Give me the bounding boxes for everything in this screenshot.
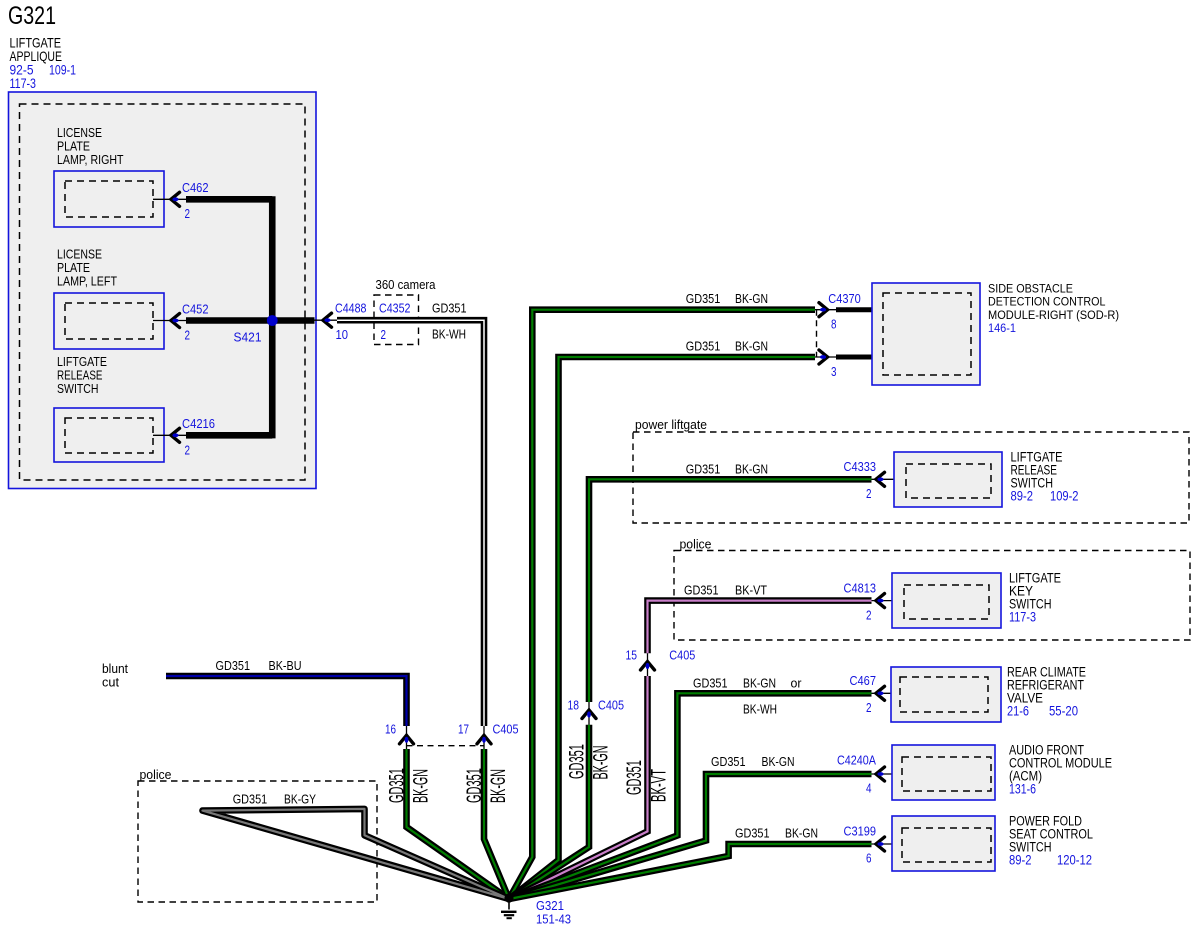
wire GD351 BK-GN from SOD-R pin 3 to ground	[509, 357, 815, 899]
dashed link of connector C405 between pins 16 and 17	[407, 745, 485, 747]
license plate lamp right component box	[54, 171, 164, 227]
police option dashed box upper	[674, 551, 1190, 641]
svg-text:131-6: 131-6	[1009, 782, 1036, 797]
svg-text:BK-GN: BK-GN	[735, 340, 768, 354]
svg-text:BK-GN: BK-GN	[590, 746, 613, 780]
wire GD351 BK-VT from C405 pin 15 to ground	[509, 676, 648, 899]
wire GD351 BK-BU from blunt cut to C405 pin 16	[166, 676, 407, 726]
liftgate release switch component box	[894, 452, 1002, 507]
svg-text:LICENSE: LICENSE	[57, 248, 102, 262]
svg-text:GD351: GD351	[566, 744, 589, 779]
power fold seat switch inner dashed box	[902, 828, 991, 862]
liftgate key switch component box	[892, 573, 1001, 628]
svg-text:109-2: 109-2	[1050, 489, 1079, 504]
rear climate valve inner dashed box	[900, 677, 988, 712]
audio front control module component box	[892, 745, 995, 800]
pin 8 lead into SOD-R	[815, 309, 883, 311]
svg-text:151-43: 151-43	[536, 912, 571, 927]
svg-text:GD351: GD351	[686, 292, 721, 306]
svg-text:C405: C405	[493, 722, 519, 737]
svg-text:C452: C452	[182, 302, 209, 317]
wire junction blob at ground point	[504, 893, 513, 902]
liftgate key switch inner dashed box	[904, 585, 989, 619]
svg-text:2: 2	[185, 444, 191, 458]
label LICENSE PLATE LAMP, LEFT	[57, 248, 117, 289]
svg-text:MODULE-RIGHT (SOD-R): MODULE-RIGHT (SOD-R)	[988, 308, 1119, 322]
svg-text:GD351: GD351	[463, 768, 486, 803]
wire C4216 to junction	[186, 432, 272, 439]
svg-text:LAMP, RIGHT: LAMP, RIGHT	[57, 153, 124, 167]
svg-text:BK-BU: BK-BU	[269, 659, 302, 673]
SOD-R module box	[872, 283, 980, 385]
svg-text:15: 15	[626, 649, 638, 663]
svg-text:GD351: GD351	[623, 760, 646, 795]
liftgate release switch inner dashed box	[65, 418, 153, 453]
connector arrow C3199 pin 6	[876, 837, 885, 851]
label LIFTGATE APPLIQUE with page refs	[10, 35, 77, 92]
label LIFTGATE RELEASE SWITCH with page refs	[1011, 450, 1079, 504]
svg-text:S421: S421	[234, 330, 262, 345]
360 camera in-line connector dashed box C4352	[374, 295, 419, 345]
liftgate release switch inner dashed box	[906, 464, 991, 498]
wire stub into liftgate key switch	[872, 600, 905, 602]
svg-text:120-12: 120-12	[1057, 853, 1092, 868]
svg-text:C467: C467	[850, 673, 877, 688]
svg-text:8: 8	[831, 318, 837, 332]
license plate lamp left inner dashed box	[65, 303, 153, 339]
connector arrow C4216 pin 2	[171, 428, 180, 442]
svg-text:C462: C462	[182, 180, 209, 195]
connector arrow C4488 pin 10	[323, 313, 332, 327]
svg-text:BK-GN: BK-GN	[785, 827, 818, 841]
liftgate applique inner dashed outline	[20, 104, 306, 480]
svg-text:GD351: GD351	[735, 827, 770, 841]
ACM inner dashed box	[902, 757, 991, 791]
svg-text:C4352: C4352	[379, 301, 411, 316]
svg-text:PLATE: PLATE	[57, 140, 90, 154]
wire GD351 BK-GN/BK-WH from rear climate valve C467 to ground	[509, 693, 872, 899]
label REAR CLIMATE REFRIGERANT VALVE with page refs	[1007, 665, 1086, 719]
svg-text:GD351: GD351	[233, 793, 268, 807]
svg-text:89-2: 89-2	[1009, 853, 1032, 868]
svg-text:BK-VT: BK-VT	[735, 584, 767, 598]
wire stub out of applique at C4488	[315, 319, 339, 321]
label POWER FOLD SEAT CONTROL SWITCH with page refs	[1009, 814, 1093, 868]
svg-text:BK-GN: BK-GN	[762, 755, 795, 769]
liftgate applique assembly box	[9, 92, 317, 489]
connector arrow C4333 pin 2	[876, 472, 885, 486]
svg-text:16: 16	[385, 723, 396, 737]
svg-text:BK-GY: BK-GY	[284, 793, 317, 807]
svg-text:21-6: 21-6	[1007, 704, 1029, 719]
svg-text:C4488: C4488	[335, 301, 367, 316]
wire from S421 to applique edge	[272, 317, 314, 324]
svg-text:C4240A: C4240A	[837, 753, 876, 768]
wire GD351 BK-GY police loop to ground	[203, 809, 510, 899]
svg-text:GD351: GD351	[686, 340, 721, 354]
connector arrow C452 pin 2	[171, 314, 180, 328]
svg-text:GD351: GD351	[385, 768, 408, 803]
svg-text:C4333: C4333	[844, 459, 877, 474]
wire stub into liftgate release switch	[153, 434, 187, 436]
connector C405 pin 16 break	[406, 726, 408, 749]
svg-text:BK-GN: BK-GN	[410, 769, 433, 803]
wire stub into power fold seat switch	[872, 843, 903, 845]
svg-text:C4216: C4216	[182, 416, 215, 431]
svg-text:PLATE: PLATE	[57, 261, 90, 275]
svg-text:55-20: 55-20	[1049, 704, 1078, 719]
svg-text:cut: cut	[102, 676, 120, 690]
svg-text:police: police	[140, 768, 172, 782]
svg-text:LIFTGATE: LIFTGATE	[57, 355, 107, 369]
svg-text:SIDE OBSTACLE: SIDE OBSTACLE	[988, 281, 1073, 295]
svg-text:C4813: C4813	[844, 580, 877, 595]
svg-text:C405: C405	[669, 648, 695, 663]
wire GD351 BK-GN from ACM C4240A to ground	[509, 774, 872, 899]
wire GD351 BK-GN from C405 pin 16 to ground	[407, 749, 510, 899]
svg-text:89-2: 89-2	[1011, 489, 1034, 504]
label AUDIO FRONT CONTROL MODULE (ACM) with page ref	[1009, 743, 1112, 797]
wire GD351 BK-GN from liftgate release switch C4333 to C405 pin 18	[589, 479, 872, 702]
svg-text:2: 2	[381, 328, 387, 342]
wire stub into ACM	[872, 773, 903, 775]
svg-text:C405: C405	[598, 698, 624, 713]
svg-text:2: 2	[866, 608, 872, 622]
svg-text:17: 17	[458, 723, 469, 737]
svg-text:2: 2	[866, 487, 872, 501]
svg-text:117-3: 117-3	[10, 75, 37, 91]
label LIFTGATE RELEASE SWITCH	[57, 355, 107, 396]
svg-text:4: 4	[866, 782, 872, 796]
connector arrow C467 pin 2	[876, 686, 885, 700]
connector arrow C4813 pin 2	[876, 594, 885, 608]
wire stub into liftgate release switch	[872, 478, 907, 480]
wire GD351 BK-GN from C405 pin 18 to ground	[509, 725, 589, 899]
svg-text:10: 10	[336, 328, 349, 342]
svg-text:blunt: blunt	[102, 662, 129, 676]
svg-text:BK-WH: BK-WH	[432, 328, 466, 342]
svg-text:GD351: GD351	[711, 755, 746, 769]
svg-text:6: 6	[866, 852, 872, 866]
license plate lamp right inner dashed box	[65, 181, 153, 217]
liftgate release switch component box	[54, 408, 164, 462]
label blunt cut	[102, 662, 129, 690]
power fold seat control switch component box	[892, 816, 995, 871]
connector arrow C405 pin 17	[477, 735, 491, 744]
wire vertical bus joining lamps and switch	[269, 196, 276, 438]
label LIFTGATE KEY SWITCH with page ref	[1009, 571, 1061, 625]
svg-text:18: 18	[568, 699, 580, 713]
connector C405 pin 18 break	[588, 702, 590, 725]
wire stub into license plate lamp left	[153, 320, 187, 322]
connector arrow C405 pin 15	[641, 662, 655, 671]
connector arrow C405 pin 16	[400, 735, 414, 744]
SOD-R inner dashed box	[883, 293, 971, 375]
svg-text:109-1: 109-1	[49, 62, 76, 78]
connector arrow C462 pin 2	[171, 192, 180, 206]
svg-text:2: 2	[185, 207, 191, 221]
label SIDE OBSTACLE DETECTION CONTROL MODULE-RIGHT	[988, 281, 1119, 335]
label LICENSE PLATE LAMP, RIGHT	[57, 126, 124, 167]
svg-text:BK-GN: BK-GN	[487, 769, 510, 803]
svg-text:LAMP, LEFT: LAMP, LEFT	[57, 275, 117, 289]
wire GD351 BK-GN from power fold seat switch C3199 to ground	[509, 844, 872, 899]
svg-text:GD351: GD351	[686, 462, 721, 476]
svg-text:BK-GN: BK-GN	[743, 676, 776, 690]
svg-text:GD351: GD351	[693, 676, 728, 690]
junction S421	[267, 315, 278, 326]
svg-text:BK-GN: BK-GN	[735, 462, 768, 476]
pin 3 lead into SOD-R	[815, 356, 883, 358]
connector arrow C4370 pin 8	[819, 303, 828, 317]
svg-text:SWITCH: SWITCH	[57, 382, 99, 396]
svg-text:power liftgate: power liftgate	[635, 418, 707, 432]
label G321 ground with page ref	[536, 898, 571, 927]
svg-text:BK-WH: BK-WH	[743, 703, 777, 717]
svg-text:146-1: 146-1	[988, 321, 1016, 335]
connector arrow C4240A pin 4	[876, 767, 885, 781]
wire GD351 BK-WH from C4488 to C405 pin 17	[337, 320, 484, 726]
wire GD351 BK-VT from liftgate key switch C4813 to C405 pin 15	[648, 601, 872, 654]
svg-text:LICENSE: LICENSE	[57, 126, 102, 140]
connector arrow C4370 pin 3	[819, 350, 828, 364]
svg-text:police: police	[680, 538, 712, 552]
connector C405 pin 15 break	[647, 653, 649, 676]
svg-text:117-3: 117-3	[1009, 610, 1036, 625]
svg-text:GD351: GD351	[432, 302, 467, 316]
connector C4370 dashed link between pins 8 and 3	[816, 310, 818, 357]
wire C462 to junction	[186, 196, 272, 203]
license plate lamp left component box	[54, 293, 164, 349]
wire C452 to junction S421	[186, 317, 272, 324]
svg-text:BK-GN: BK-GN	[735, 292, 768, 306]
svg-text:GD351: GD351	[216, 659, 251, 673]
svg-text:C3199: C3199	[844, 824, 877, 839]
ground G321	[501, 897, 517, 918]
wire stub into license plate lamp right	[153, 198, 187, 200]
svg-text:DETECTION CONTROL: DETECTION CONTROL	[988, 295, 1106, 309]
power liftgate option dashed box	[633, 432, 1189, 523]
svg-text:2: 2	[185, 329, 191, 343]
svg-text:G321: G321	[8, 3, 56, 30]
svg-text:360 camera: 360 camera	[376, 278, 436, 292]
svg-text:RELEASE: RELEASE	[57, 369, 103, 383]
svg-text:3: 3	[831, 365, 837, 379]
svg-text:GD351: GD351	[684, 584, 719, 598]
svg-text:2: 2	[866, 701, 872, 715]
svg-text:BK-VT: BK-VT	[648, 769, 671, 802]
police option dashed box lower left	[138, 781, 377, 902]
wire GD351 BK-GN from C405 pin 17 to ground	[484, 749, 509, 899]
connector arrow C405 pin 18	[582, 710, 596, 719]
rear climate refrigerant valve component box	[891, 667, 1001, 722]
svg-text:C4370: C4370	[828, 291, 861, 306]
wire GD351 BK-GN from SOD-R pin 8 to ground	[509, 310, 815, 899]
connector C405 pin 17 break	[483, 726, 485, 749]
wire stub into rear climate valve	[872, 692, 901, 694]
svg-text:or: or	[791, 676, 802, 690]
